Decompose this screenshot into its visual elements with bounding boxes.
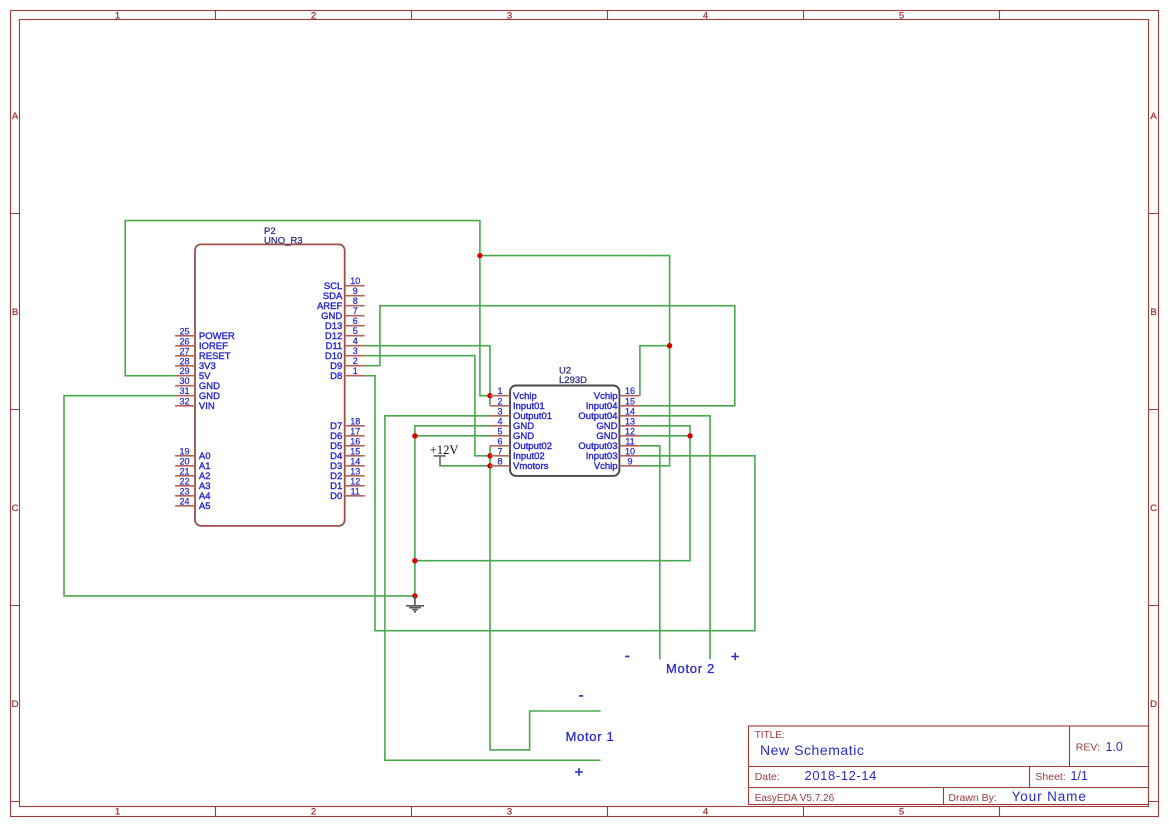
P2 pin 16 D5 xyxy=(330,436,365,452)
svg-text:26: 26 xyxy=(179,336,189,346)
svg-text:-: - xyxy=(625,648,630,665)
P2 pin 23 A4 xyxy=(175,486,210,502)
svg-text:25: 25 xyxy=(179,326,189,336)
svg-text:2: 2 xyxy=(497,396,502,406)
svg-text:6: 6 xyxy=(497,436,502,446)
P2 pin 27 RESET xyxy=(175,346,231,362)
junction at U2 pin12 row xyxy=(687,433,692,438)
svg-text:1: 1 xyxy=(497,386,502,396)
svg-text:17: 17 xyxy=(350,426,360,436)
svg-text:1: 1 xyxy=(115,10,120,21)
svg-text:1.0: 1.0 xyxy=(1106,740,1123,754)
svg-text:23: 23 xyxy=(179,486,189,496)
svg-text:C: C xyxy=(1150,503,1157,514)
svg-text:12: 12 xyxy=(625,426,635,436)
wire net Output04 to Motor 2 plus xyxy=(639,416,710,660)
frame row tick marks right xyxy=(1149,214,1159,802)
svg-text:2: 2 xyxy=(311,806,316,817)
svg-text:16: 16 xyxy=(350,436,360,446)
wire net D11 to U2 pin2 Input01 xyxy=(365,346,490,406)
U2 pin 8 Vmotors xyxy=(490,456,549,472)
U2 pin 9 Vchip xyxy=(594,456,640,472)
wire 5V net branch to U2 pin9 Vchip xyxy=(639,346,669,466)
svg-text:9: 9 xyxy=(627,456,632,466)
wire 5V net: UNO pin29 to U2 pin1 Vchip xyxy=(125,221,490,396)
U2 pin 14 Output04 xyxy=(578,406,639,422)
svg-text:19: 19 xyxy=(179,446,189,456)
svg-text:D8: D8 xyxy=(330,371,342,382)
P2 pin 24 A5 xyxy=(175,496,210,512)
svg-text:TITLE:: TITLE: xyxy=(755,730,785,741)
junction GND right branch xyxy=(412,558,417,563)
svg-text:5: 5 xyxy=(497,426,502,436)
U2 pin 3 Output01 xyxy=(490,406,552,422)
svg-text:18: 18 xyxy=(350,416,360,426)
P2 pin 5 D12 xyxy=(325,326,365,342)
wire GND net branch to right side U2 pin13 GND xyxy=(415,426,690,561)
svg-text:Vchip: Vchip xyxy=(594,461,618,472)
svg-text:5: 5 xyxy=(353,326,358,336)
svg-text:2: 2 xyxy=(311,10,316,21)
wire 5V net branch to right side xyxy=(480,256,670,346)
P2 pin 15 D4 xyxy=(330,446,365,462)
svg-text:24: 24 xyxy=(179,496,189,506)
wire GND net: UNO pin31 to ground xyxy=(64,396,415,596)
svg-text:27: 27 xyxy=(179,346,189,356)
junction GND at ground symbol xyxy=(412,593,417,598)
svg-text:D: D xyxy=(1150,699,1157,710)
P2 pin 29 5V xyxy=(175,366,211,382)
svg-text:+: + xyxy=(731,649,740,666)
wire net Output02 to Motor 1 minus xyxy=(490,446,601,750)
U2 pin 13 GND xyxy=(596,416,639,432)
title block outline xyxy=(749,726,1149,805)
svg-text:15: 15 xyxy=(350,446,360,456)
U2 pin 10 Input03 xyxy=(586,446,640,462)
junction at U2 pin8 xyxy=(487,463,492,468)
svg-text:A5: A5 xyxy=(199,501,211,512)
svg-text:28: 28 xyxy=(179,356,189,366)
P2 pin 30 GND xyxy=(175,376,220,392)
svg-text:Motor 2: Motor 2 xyxy=(666,661,715,676)
svg-text:4: 4 xyxy=(703,806,708,817)
svg-text:REV:: REV: xyxy=(1076,742,1100,754)
P2 pin 1 D8 xyxy=(330,366,365,382)
svg-text:1/1: 1/1 xyxy=(1071,769,1088,783)
U2 pin 2 Input01 xyxy=(490,396,545,412)
svg-text:10: 10 xyxy=(350,276,360,286)
U2 pin 1 Vchip xyxy=(490,386,537,402)
frame column tick marks bottom xyxy=(216,807,1000,817)
wire GND net vertical to U2 pin4 GND xyxy=(415,426,490,596)
svg-text:Your Name: Your Name xyxy=(1012,789,1087,804)
svg-text:15: 15 xyxy=(625,396,635,406)
svg-text:12: 12 xyxy=(350,476,360,486)
svg-text:8: 8 xyxy=(353,296,358,306)
svg-text:3: 3 xyxy=(507,806,512,817)
U2 pin 15 Input04 xyxy=(586,396,640,412)
svg-text:13: 13 xyxy=(350,466,360,476)
P2 pin 28 3V3 xyxy=(175,356,216,372)
wire net +12V to U2 pin8 Vmotors xyxy=(439,465,490,467)
svg-text:30: 30 xyxy=(179,376,189,386)
P2 pin 26 IOREF xyxy=(175,336,228,352)
P2 pin 8 AREF xyxy=(317,296,365,312)
svg-text:Drawn By:: Drawn By: xyxy=(948,792,996,804)
U2 pin 5 GND xyxy=(490,426,534,442)
wire net Output03 to Motor 2 minus xyxy=(639,446,659,660)
svg-text:3: 3 xyxy=(507,10,512,21)
svg-text:EasyEDA V5.7.26: EasyEDA V5.7.26 xyxy=(755,793,835,804)
svg-text:21: 21 xyxy=(179,466,189,476)
U2 pin 11 Output03 xyxy=(578,436,639,452)
svg-text:7: 7 xyxy=(497,446,502,456)
svg-text:29: 29 xyxy=(179,366,189,376)
frame column tick marks top xyxy=(216,11,1000,20)
svg-text:A: A xyxy=(12,111,19,122)
+12V power symbol xyxy=(434,456,446,466)
P2 pin 14 D3 xyxy=(330,456,365,472)
P2 pin 22 A3 xyxy=(175,476,210,492)
svg-text:11: 11 xyxy=(625,436,634,446)
wire net D9 to U2 pin15 Input04 xyxy=(365,306,735,406)
wire GND net branch U2 pin12 GND xyxy=(639,435,690,437)
P2 pin 9 SDA xyxy=(323,286,365,302)
svg-text:D: D xyxy=(12,699,19,710)
svg-text:8: 8 xyxy=(497,456,502,466)
svg-text:B: B xyxy=(12,307,18,318)
svg-text:22: 22 xyxy=(179,476,189,486)
P2 pin 19 A0 xyxy=(175,446,210,462)
junction 5V net top T xyxy=(477,253,482,258)
svg-text:3: 3 xyxy=(497,406,502,416)
svg-text:14: 14 xyxy=(350,456,360,466)
junction 5V net right T xyxy=(667,343,672,348)
P2 pin 20 A1 xyxy=(175,456,210,472)
svg-text:14: 14 xyxy=(625,406,635,416)
P2 pin 13 D2 xyxy=(330,466,365,482)
svg-text:L293D: L293D xyxy=(559,375,587,386)
svg-text:6: 6 xyxy=(353,316,358,326)
svg-text:10: 10 xyxy=(625,446,635,456)
svg-text:31: 31 xyxy=(179,386,189,396)
svg-text:11: 11 xyxy=(351,486,360,496)
svg-text:4: 4 xyxy=(353,336,358,346)
svg-text:UNO_R3: UNO_R3 xyxy=(264,235,303,246)
wire net D10 to U2 pin7 Input02 xyxy=(365,356,490,456)
svg-text:7: 7 xyxy=(353,306,358,316)
svg-text:Motor 1: Motor 1 xyxy=(566,729,615,744)
P2 pin 10 SCL xyxy=(324,276,365,292)
svg-text:-: - xyxy=(579,687,584,704)
svg-text:Vmotors: Vmotors xyxy=(513,461,549,472)
svg-text:+: + xyxy=(575,764,584,781)
svg-text:13: 13 xyxy=(625,416,635,426)
svg-text:16: 16 xyxy=(625,386,635,396)
junction GND at pin5 row xyxy=(412,433,417,438)
U2 pin 16 Vchip xyxy=(594,386,640,402)
P2 pin 4 D11 xyxy=(326,336,365,352)
svg-text:4: 4 xyxy=(497,416,502,426)
wire GND net branch to U2 pin5 GND xyxy=(415,435,490,437)
P2 pin 7 GND xyxy=(321,306,365,322)
svg-text:C: C xyxy=(12,503,19,514)
svg-text:B: B xyxy=(1150,307,1156,318)
svg-text:20: 20 xyxy=(179,456,189,466)
U2 pin 6 Output02 xyxy=(490,436,552,452)
svg-text:+12V: +12V xyxy=(430,443,460,457)
svg-text:32: 32 xyxy=(179,396,189,406)
svg-text:New Schematic: New Schematic xyxy=(760,742,864,758)
svg-text:VIN: VIN xyxy=(199,401,215,412)
svg-text:1: 1 xyxy=(353,366,358,376)
ground symbol xyxy=(406,596,424,612)
svg-text:A: A xyxy=(1150,111,1157,122)
junction at U2 pin1 xyxy=(487,393,492,398)
P2 pin 32 VIN xyxy=(175,396,215,412)
connector P2 UNO_R3 body xyxy=(195,244,345,526)
svg-text:9: 9 xyxy=(353,286,358,296)
svg-text:2: 2 xyxy=(353,356,358,366)
P2 pin 18 D7 xyxy=(330,416,365,432)
P2 pin 11 D0 xyxy=(330,486,365,502)
U2 pin 4 GND xyxy=(490,416,534,432)
svg-text:5: 5 xyxy=(899,10,904,21)
IC U2 L293D body xyxy=(510,386,619,476)
svg-text:D0: D0 xyxy=(330,491,342,502)
P2 pin 2 D9 xyxy=(330,356,365,372)
junction at U2 pin7 xyxy=(487,453,492,458)
wire net D8 to U2 pin10 Input03 xyxy=(365,376,755,631)
U2 pin 7 Input02 xyxy=(490,446,545,462)
P2 pin 17 D6 xyxy=(330,426,365,442)
P2 pin 6 D13 xyxy=(325,316,365,332)
svg-text:4: 4 xyxy=(703,10,708,21)
P2 pin 12 D1 xyxy=(330,476,365,492)
svg-text:Date:: Date: xyxy=(755,771,780,783)
P2 pin 21 A2 xyxy=(175,466,210,482)
svg-text:3: 3 xyxy=(353,346,358,356)
svg-text:2018-12-14: 2018-12-14 xyxy=(805,768,878,783)
wire 5V net branch to U2 pin16 Vchip xyxy=(640,346,670,396)
svg-text:Sheet:: Sheet: xyxy=(1035,771,1065,783)
frame row tick marks left xyxy=(11,214,20,802)
U2 pin 12 GND xyxy=(596,426,639,442)
P2 pin 31 GND xyxy=(175,386,220,402)
wire net Output01 to Motor 1 plus xyxy=(385,416,601,761)
P2 pin 25 POWER xyxy=(175,326,235,342)
P2 pin 3 D10 xyxy=(325,346,365,362)
svg-text:5: 5 xyxy=(899,806,904,817)
svg-text:1: 1 xyxy=(115,806,120,817)
